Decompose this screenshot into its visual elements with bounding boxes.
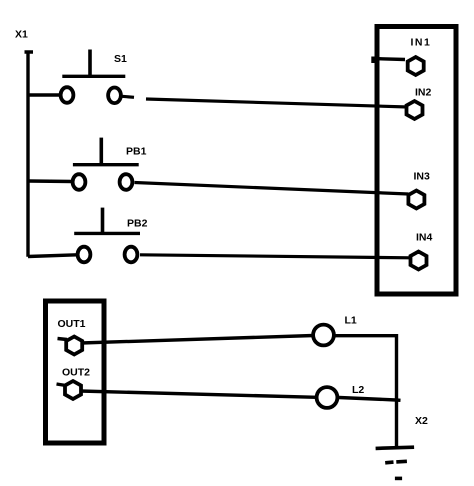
wire PB1 to IN3 [135, 183, 409, 195]
contact PB2 right [125, 247, 138, 263]
terminal IN4 label [416, 232, 433, 244]
svg-text:L1: L1 [345, 315, 357, 327]
terminal OUT1 hexagon [66, 337, 82, 355]
terminal OUT1 label [58, 318, 86, 330]
lamp L1 label [345, 315, 357, 327]
wire IN1 stub [372, 57, 405, 64]
wire branch to PB2 left contact [28, 255, 77, 257]
switch S1 [62, 50, 125, 77]
wire branch to S1 left contact [28, 93, 61, 96]
wire OUT1 to L1 [81, 336, 314, 344]
terminal IN3 hexagon [408, 191, 424, 209]
output module box [46, 301, 105, 443]
svg-text:X1: X1 [15, 29, 28, 41]
contact PB2 left [78, 247, 91, 263]
wire OUT1 left stub [58, 339, 68, 340]
terminal OUT2 hexagon [65, 381, 81, 399]
svg-text:PB2: PB2 [127, 218, 148, 230]
contact S1 left [61, 87, 74, 103]
terminal IN4 hexagon [411, 252, 427, 270]
wire branch to PB1 left contact [28, 179, 73, 183]
svg-text:IN4: IN4 [416, 232, 433, 244]
wire L1 to corner and down to ground [336, 334, 397, 447]
wire PB2 to IN4 [140, 255, 411, 258]
input module box [377, 27, 456, 295]
terminal IN2 hexagon [407, 101, 423, 119]
svg-text:OUT2: OUT2 [62, 367, 90, 379]
wire S1 right stub [122, 96, 134, 97]
node X1 label [15, 29, 28, 41]
svg-text:OUT1: OUT1 [58, 318, 86, 330]
terminal IN3 label [414, 171, 431, 183]
switch S1 label [114, 53, 127, 65]
terminal IN1 label [411, 37, 432, 49]
wire OUT2 to L2 [80, 391, 317, 397]
node X2 label [415, 415, 428, 427]
wire L2 to junction [339, 398, 401, 401]
wire OUT2 left stub [57, 384, 67, 386]
terminal IN2 label [415, 87, 432, 99]
contact S1 right [108, 88, 121, 104]
pushbutton PB1 label [126, 146, 147, 158]
contact PB1 right [120, 174, 133, 190]
wire bus X1 vertical with top tick [25, 51, 34, 257]
svg-text:IN1: IN1 [411, 37, 432, 49]
terminal OUT2 label [62, 367, 90, 379]
lamp L2 label [352, 384, 364, 396]
terminal IN1 hexagon [408, 57, 424, 75]
lamp L2 [317, 387, 338, 408]
svg-text:S1: S1 [114, 53, 127, 65]
svg-text:PB1: PB1 [126, 146, 147, 158]
svg-text:L2: L2 [352, 384, 364, 396]
svg-text:IN2: IN2 [415, 87, 432, 99]
lamp L1 [313, 325, 334, 346]
pushbutton PB2 label [127, 218, 148, 230]
wire S1 to IN2 [146, 99, 408, 107]
svg-text:IN3: IN3 [414, 171, 431, 183]
ground symbol [376, 447, 415, 478]
pushbutton PB2 [74, 208, 140, 234]
svg-text:X2: X2 [415, 415, 428, 427]
contact PB1 left [73, 174, 86, 190]
pushbutton PB1 [73, 138, 139, 165]
